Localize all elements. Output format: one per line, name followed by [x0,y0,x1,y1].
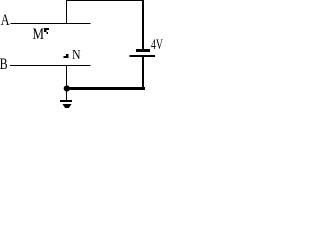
svg-text:A: A [1,12,10,29]
svg-text:B: B [0,56,8,73]
wire: top horizontal [66,0,144,1]
svg-text:M: M [33,26,45,43]
node N marker blob [64,54,69,58]
wire: right vertical lower (battery - to bottom wire) [142,57,144,89]
wire: vertical from B wire through junction to ground [66,65,67,100]
battery V1 bottom plate (long thin) [130,55,156,57]
ground filled triangle [63,104,72,111]
svg-text:4V: 4V [151,37,163,53]
wire: right vertical upper (to battery +) [142,0,144,49]
wire: riser from A wire to top wire [66,0,67,24]
wire: terminal A stub [11,23,91,24]
prime mark after M [44,28,49,34]
battery V1 top plate (short thick) [136,49,150,52]
junction dot on bottom wire [64,85,70,91]
wire: bottom horizontal [64,87,145,90]
svg-text:N: N [72,47,80,62]
ground bar long [60,100,72,102]
wire: terminal B stub [10,65,91,66]
